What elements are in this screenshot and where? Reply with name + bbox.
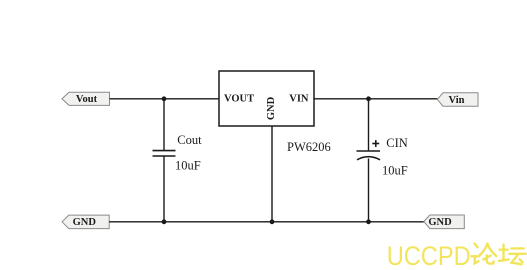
svg-text:GND: GND: [266, 96, 277, 120]
net flag GND right: [424, 215, 464, 229]
CIN polarity plus sign: [372, 140, 379, 147]
watermark hanzi lun: [471, 244, 496, 264]
wire node A down to Cout top plate: [163, 99, 165, 151]
svg-text:VIN: VIN: [289, 94, 309, 105]
svg-text:GND: GND: [73, 217, 97, 228]
wire U1 VIN pin to node B: [314, 98, 369, 100]
junction node A: [162, 96, 167, 101]
capacitor CIN (polarized): [357, 151, 381, 160]
net flag Vin: [437, 93, 478, 106]
wire U1 GND pin down to node D: [271, 126, 273, 222]
svg-text:UCCPD: UCCPD: [387, 241, 471, 270]
watermark hanzi tan: [499, 245, 526, 265]
net flag Vout: [62, 92, 110, 105]
wire Cout bottom plate down to node C: [163, 156, 165, 222]
capacitor Cout: [153, 151, 176, 156]
wire node A to U1 VOUT pin: [164, 98, 219, 100]
svg-text:Cout: Cout: [177, 133, 202, 147]
svg-text:CIN: CIN: [386, 136, 408, 150]
junction node D: [270, 219, 275, 224]
wire CIN bottom plate down to node E: [368, 159, 370, 222]
svg-text:10uF: 10uF: [382, 164, 408, 178]
svg-text:GND: GND: [428, 217, 452, 228]
op-amp U1 PW6206 body: [219, 71, 314, 126]
wire Vout flag to node A: [110, 98, 165, 100]
wire GND left flag to node C: [109, 221, 164, 223]
svg-text:Vin: Vin: [449, 95, 465, 106]
wire node E to GND right flag: [369, 221, 425, 223]
junction node C: [162, 219, 167, 224]
net flag GND left: [62, 215, 109, 229]
svg-text:VOUT: VOUT: [224, 94, 254, 105]
wire node C to node D: [164, 221, 272, 223]
wire node D to node E: [272, 221, 369, 223]
wire node B to Vin flag: [369, 98, 438, 100]
wire node B down to CIN top plate: [368, 99, 370, 151]
svg-text:10uF: 10uF: [175, 159, 201, 173]
svg-text:PW6206: PW6206: [287, 140, 331, 154]
junction node E: [366, 219, 371, 224]
svg-text:Vout: Vout: [76, 94, 98, 105]
junction node B: [366, 96, 371, 101]
